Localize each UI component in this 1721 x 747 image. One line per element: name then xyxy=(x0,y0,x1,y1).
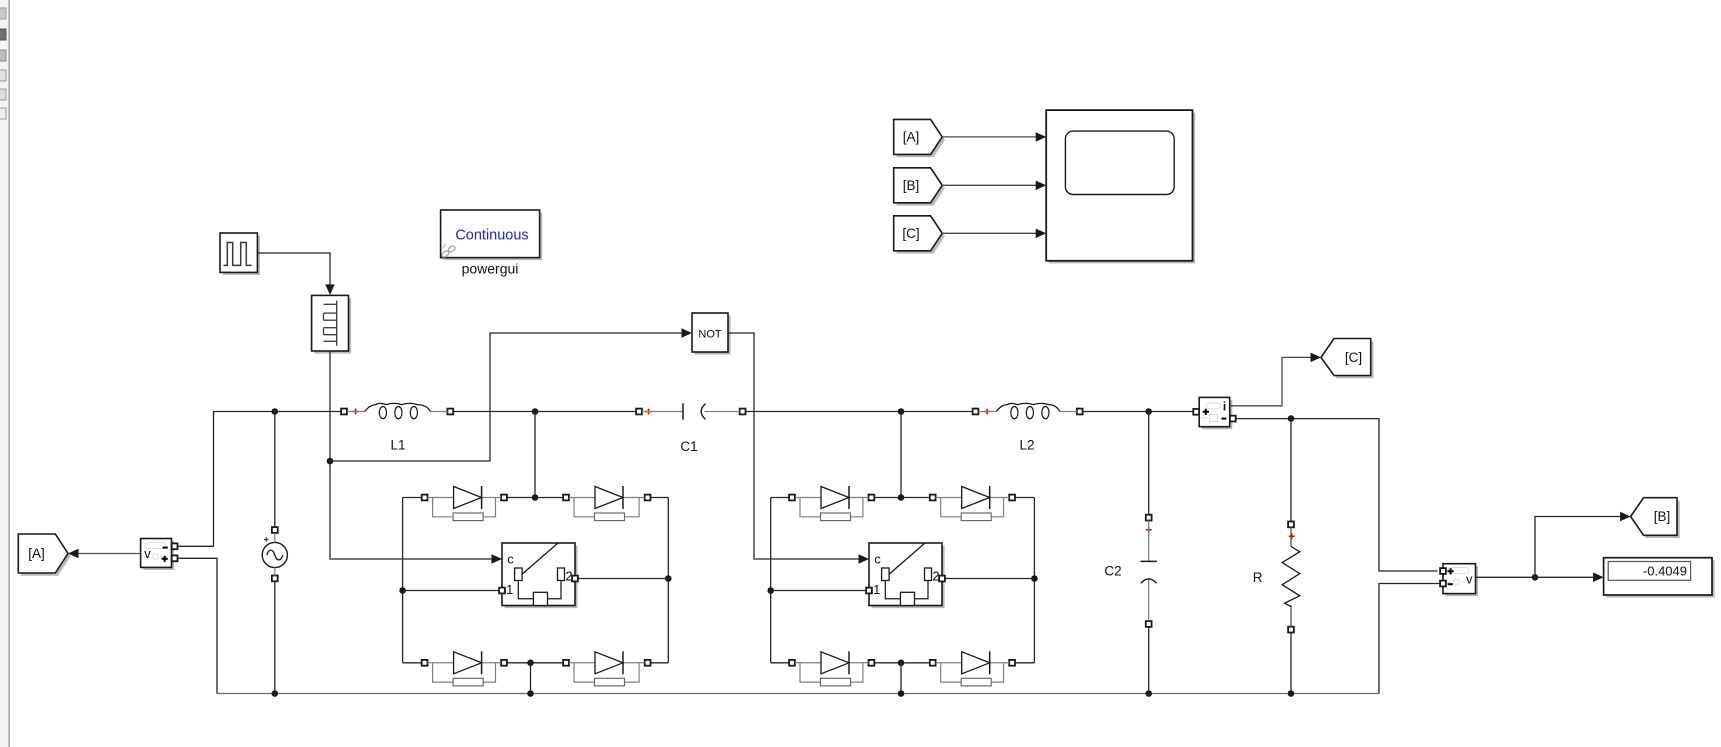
diode bridge 2 bottom-right with RC snubber xyxy=(930,651,1015,686)
goto tag [B] xyxy=(1631,498,1680,538)
svg-text:C1: C1 xyxy=(680,439,697,454)
wire current sensor i output to goto tag [C] xyxy=(1230,353,1321,406)
junction bridge 1 bottom rail xyxy=(527,660,534,667)
svg-text:C2: C2 xyxy=(1104,564,1121,579)
svg-text:[B]: [B] xyxy=(903,178,920,193)
from tag [A] feeding scope xyxy=(894,119,945,157)
wire C1 to L2 xyxy=(745,411,972,413)
diode bridge 2 bottom-left with RC snubber xyxy=(789,651,874,686)
wire current sensor minus to V2 plus xyxy=(1236,419,1438,571)
junction bridge 2 top rail xyxy=(898,494,905,501)
svg-text:c: c xyxy=(507,552,514,567)
wire switch port 2 to bridge 1 right rail xyxy=(578,578,669,580)
diode bridge 1 top-left with RC snubber xyxy=(422,486,507,521)
junction top rail at C2 branch xyxy=(1145,408,1152,415)
wire from tag [A] to scope xyxy=(942,132,1046,142)
wire V2 output to display xyxy=(1535,573,1604,583)
current measurement block xyxy=(1193,397,1235,429)
svg-text:L1: L1 xyxy=(390,438,405,453)
wire V1 output to goto tag [A] xyxy=(68,549,141,558)
wire bridge 2 right rail xyxy=(1033,498,1035,663)
junction output rail at R branch xyxy=(1288,415,1295,422)
svg-text:1: 1 xyxy=(873,582,880,597)
AC voltage source xyxy=(262,527,287,581)
diode bridge 1 bottom-left with RC snubber xyxy=(422,651,507,686)
svg-text:v: v xyxy=(144,546,151,561)
wire top rail down to bridge 2 xyxy=(900,412,902,498)
junction V2 output node xyxy=(1532,574,1539,581)
wire V2 output to junction xyxy=(1476,576,1536,578)
svg-text:i: i xyxy=(1223,400,1226,414)
wire bridge 1 left rail to switch port 1 xyxy=(403,590,500,592)
wire gate junction to bridge 1 switch gate xyxy=(330,461,502,564)
diode bridge 2 top-left with RC snubber xyxy=(789,486,874,521)
capacitor C2 xyxy=(1104,515,1157,627)
junction top rail to bridge 2 xyxy=(898,408,905,415)
junction bottom rail at R xyxy=(1288,690,1295,697)
svg-text:R: R xyxy=(1253,570,1263,585)
display block showing -0.4049 xyxy=(1604,558,1715,598)
wire AC source top to rail xyxy=(274,412,276,528)
wire switch port 2 to bridge 2 right rail xyxy=(945,578,1035,580)
ideal switch block bridge 2 xyxy=(866,543,945,608)
svg-text:[C]: [C] xyxy=(902,226,919,241)
pulse generator block xyxy=(220,233,260,275)
wire V2 output to goto tag [B] xyxy=(1535,512,1631,578)
junction top rail at AC source xyxy=(272,408,279,415)
svg-text:[A]: [A] xyxy=(28,546,45,561)
wire R bottom to bottom rail xyxy=(1290,632,1292,693)
svg-text:1: 1 xyxy=(506,582,513,597)
diode bridge 1 top-right with RC snubber xyxy=(563,486,650,521)
wire bridge 1 right rail xyxy=(667,498,669,663)
goto tag [C] xyxy=(1321,339,1374,379)
wire bridge 1 bottom rail to main bottom rail xyxy=(530,663,532,694)
from tag [C] feeding scope xyxy=(894,216,945,254)
wire output rail down to R xyxy=(1290,419,1292,522)
wire bridge 2 left rail xyxy=(770,498,772,663)
svg-text:Continuous: Continuous xyxy=(455,228,528,244)
wire top rail down to C2 xyxy=(1148,412,1150,515)
junction bridge 1 switch input node xyxy=(399,587,406,594)
bottom rail xyxy=(217,693,1379,695)
wire from tag [C] to scope xyxy=(942,229,1046,239)
diode bridge 1 bottom-right with RC snubber xyxy=(563,651,650,686)
junction top rail to bridge 1 xyxy=(532,408,539,415)
wire bridge 1 top rail xyxy=(403,497,669,499)
wire NOT output to bridge 2 switch gate xyxy=(728,333,869,564)
wire bridge 1 left rail xyxy=(402,498,404,663)
inductor L1 xyxy=(341,403,453,452)
voltage measurement V2 xyxy=(1440,564,1478,597)
svg-text:[A]: [A] xyxy=(903,130,920,145)
wire from tag [B] to scope xyxy=(942,181,1046,191)
junction bridge 2 bottom rail xyxy=(898,660,905,667)
resistor R xyxy=(1253,522,1300,633)
svg-text:-0.4049: -0.4049 xyxy=(1643,564,1687,579)
svg-text:[B]: [B] xyxy=(1654,509,1671,524)
wire V1 plus to bottom rail corner xyxy=(177,558,217,693)
junction main bottom rail below bridge 1 xyxy=(527,690,534,697)
junction bottom rail at AC source xyxy=(272,690,279,697)
wire gate junction to NOT input xyxy=(330,328,692,461)
svg-text:v: v xyxy=(1466,572,1473,587)
junction main bottom rail below bridge 2 xyxy=(898,690,905,697)
capacitor C1 xyxy=(636,403,745,454)
wire V1 minus to top rail xyxy=(177,412,341,547)
junction bridge 2 switch input node xyxy=(767,587,774,594)
junction bridge 2 switch output node xyxy=(1031,575,1038,582)
svg-text:[C]: [C] xyxy=(1345,350,1362,365)
wire L2 to current sensor xyxy=(1083,411,1197,413)
left toolbar strip xyxy=(0,0,9,747)
wire bridge 2 top rail xyxy=(771,497,1035,499)
wire bridge 1 bottom rail xyxy=(403,662,669,664)
wire bridge 2 bottom rail to main bottom rail xyxy=(900,663,902,694)
wire top rail down to bridge 1 xyxy=(534,412,536,498)
svg-text:c: c xyxy=(874,552,881,567)
svg-text:NOT: NOT xyxy=(698,329,722,341)
junction bridge 1 top rail xyxy=(532,494,539,501)
wire L1 to C1 xyxy=(453,411,636,413)
diode bridge 2 top-right with RC snubber xyxy=(930,486,1015,521)
wire PWM output down to gate junction xyxy=(329,351,331,461)
wire bridge 2 bottom rail xyxy=(771,662,1035,664)
inductor L2 xyxy=(973,403,1083,452)
scope block xyxy=(1046,110,1195,263)
voltage measurement V1 xyxy=(141,539,178,571)
svg-text:powergui: powergui xyxy=(462,261,519,277)
powergui block xyxy=(441,210,543,260)
svg-text:L2: L2 xyxy=(1019,438,1034,453)
wire AC source bottom to rail xyxy=(274,581,276,693)
wire C2 bottom to bottom rail xyxy=(1148,627,1150,694)
junction gate signal node xyxy=(327,458,334,465)
ideal switch block bridge 1 xyxy=(499,543,578,608)
PWM generator block xyxy=(312,295,352,353)
wire V2 minus to bottom rail corner xyxy=(1379,584,1440,694)
junction bottom rail at C2 xyxy=(1145,690,1152,697)
wire bridge 2 left rail to switch port 1 xyxy=(771,590,867,592)
wire pulse generator to PWM generator xyxy=(257,253,334,295)
logical operator NOT block xyxy=(692,313,731,355)
goto tag [A] xyxy=(18,534,70,576)
junction bridge 1 switch output node xyxy=(665,575,672,582)
from tag [B] feeding scope xyxy=(894,168,945,206)
